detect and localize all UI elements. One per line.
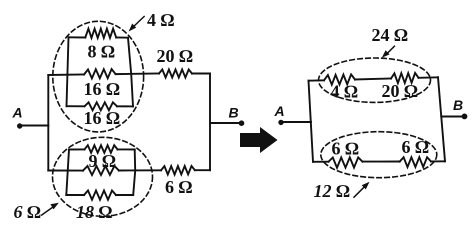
svg-text:4 Ω: 4 Ω [331,82,359,102]
resistor 9ohm (top row of lower group) [85,145,118,153]
wire top rail lead 1 [309,79,325,81]
svg-text:8 Ω: 8 Ω [88,42,116,62]
arrow from 4ohm label to upper group [133,17,145,28]
arrowhead of 6ohm label arrow [50,203,58,210]
wire bottom row lead right [117,105,133,107]
wire top group right side [128,38,133,107]
wire 20ohm to right line [192,73,210,75]
wire from right node A to circuit [283,121,311,123]
resistor 18ohm (bottom row of lower group) [84,191,116,200]
wire right vertical line of left circuit [209,74,211,171]
wire left vertical bus [47,75,49,171]
wire middle row lead left (bus to zigzag) [48,74,84,77]
wire to node B (right circuit) [441,116,463,118]
resistor 16ohm (bottom row of upper group) [85,102,118,110]
svg-text:6 Ω: 6 Ω [402,137,430,157]
wire top rail lead 3 [419,76,439,79]
svg-text:6 Ω: 6 Ω [332,139,360,159]
resistor 16ohm (middle row of upper group) [84,69,116,78]
svg-text:6 Ω: 6 Ω [14,202,42,222]
wire right side of right circuit [438,77,445,161]
resistor 6ohm (right circuit bottom right) [400,157,431,167]
arrowhead of 12ohm label arrow [362,182,370,190]
dashed ellipse around lower parallel group [53,137,153,216]
node A (left circuit) terminal dot [17,123,22,128]
resistor (middle row of lower group) [83,166,119,175]
wire bottom group top row lead left [69,148,85,150]
resistor 6ohm (right circuit bottom left) [329,157,363,167]
wire middle row lead right to 20ohm [116,73,159,76]
node B (left circuit) terminal dot [239,120,245,126]
wire bottom group middle row lead right to 6ohm [119,169,161,171]
wire left side of right circuit [309,81,314,162]
wire bottom group bottom row lead right [116,194,133,196]
wire bottom rail lead 2 [363,161,400,163]
arrow from 12ohm label to ellipse [354,186,366,198]
wire from node A to left bus [21,125,48,127]
dashed ellipse around 12ohm series pair [321,132,437,178]
wire bottom group middle row lead left [48,170,83,172]
svg-text:20 Ω: 20 Ω [157,46,194,66]
wire bottom group left side [66,150,69,196]
wire bottom group bottom row lead left [66,194,84,196]
arrowhead of 24ohm label arrow [382,50,390,58]
wire bottom row lead left [67,105,85,107]
svg-text:B: B [229,105,239,121]
arrow from 24ohm label to ellipse [386,46,394,54]
node A (right circuit) terminal dot [278,120,283,125]
svg-text:24 Ω: 24 Ω [372,25,409,45]
svg-text:4 Ω: 4 Ω [147,10,175,30]
wire top row lead right [116,37,128,39]
arrowhead of 4ohm label arrow [129,24,137,32]
wire top group left side [67,37,69,106]
arrow from 6ohm label to lower group [42,206,55,215]
wire top rail lead 2 [355,79,391,80]
wire bottom group top row lead right [118,148,135,150]
svg-text:A: A [12,105,23,121]
wire bottom rail lead 1 [313,161,329,163]
resistor 6ohm (series, bottom branch) [161,166,195,175]
wire bottom rail lead 3 [431,160,445,162]
node B (right circuit) terminal dot [462,114,468,120]
svg-text:16 Ω: 16 Ω [84,79,121,99]
wire bottom group right side [133,150,135,196]
svg-text:6 Ω: 6 Ω [165,177,193,197]
svg-text:18 Ω: 18 Ω [76,202,113,222]
svg-text:16 Ω: 16 Ω [84,108,121,128]
resistor 4ohm (right circuit top) [324,74,355,84]
big implication arrow between circuits [240,127,278,153]
resistor 20ohm (series, top branch) [159,70,192,78]
wire top row lead left [69,36,86,38]
wire 6ohm to right line [195,169,210,171]
svg-text:20 Ω: 20 Ω [382,81,419,101]
dashed ellipse around 24ohm series pair [319,58,431,102]
wire to node B (left circuit) [210,122,240,124]
svg-text:A: A [274,103,285,119]
svg-text:12 Ω: 12 Ω [314,181,351,201]
resistor 20ohm (right circuit top) [391,73,419,83]
dashed ellipse around upper parallel group [53,21,144,132]
resistor 8ohm (top row of upper group) [85,29,116,38]
svg-text:B: B [453,97,463,113]
svg-text:9 Ω: 9 Ω [89,151,117,171]
